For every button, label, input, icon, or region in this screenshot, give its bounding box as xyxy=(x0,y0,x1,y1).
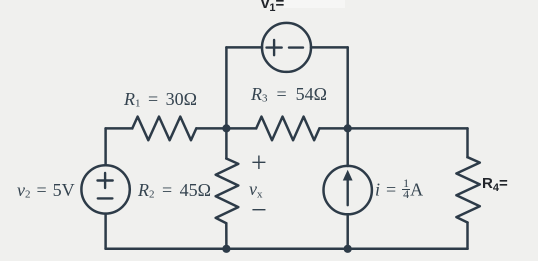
voltage source V1 minus terminal xyxy=(289,46,303,48)
resistor R3 (54 ohm, horizontal) xyxy=(256,117,319,141)
voltage source V1 (v1) circle xyxy=(262,23,311,72)
wire: R2 to bottom rail node D xyxy=(225,223,228,249)
label vx minus polarity xyxy=(251,195,267,227)
wire: node C to right rail top xyxy=(348,127,468,130)
wire: main horizontal rail left segment (node A to R1) xyxy=(106,127,133,130)
wire: node B to R3 xyxy=(226,127,256,130)
wire: top loop right vertical down to node C xyxy=(346,47,349,128)
value label R2 = 45 ohm xyxy=(138,180,211,201)
wire: node B down to R2 xyxy=(225,128,228,158)
wire: node B up to top loop xyxy=(225,47,228,128)
wire: source V1 to top loop right xyxy=(311,46,348,49)
value label R1 = 30 ohm xyxy=(124,89,197,110)
resistor R4 (vertical, right) xyxy=(456,157,479,222)
value label i = 1/4 A (current source I1) xyxy=(375,179,423,201)
label vx plus polarity xyxy=(251,148,267,180)
voltage source V1 plus terminal xyxy=(267,40,282,55)
value label R3 = 54 ohm xyxy=(251,84,327,105)
wire: R4 to bottom rail xyxy=(466,223,469,249)
wire: top loop left horizontal to source V1 xyxy=(226,46,262,49)
label vx (node voltage) xyxy=(249,179,263,200)
node E junction dot xyxy=(344,245,352,253)
current source I1 arrow xyxy=(343,170,353,205)
value label v2 = 5V (source V2) xyxy=(17,180,75,201)
voltage source V2 plus terminal xyxy=(98,173,113,188)
wire: V2 bottom to bottom rail xyxy=(104,214,107,249)
wire: node C down to current source I1 xyxy=(346,128,349,166)
node D junction dot xyxy=(222,245,230,253)
wire: R3 to node C xyxy=(319,127,347,130)
resistor R2 (45 ohm, vertical) xyxy=(216,159,239,224)
resistor R1 (30 ohm, horizontal) xyxy=(132,117,196,141)
wire: bottom rail xyxy=(106,248,468,251)
value label R4= xyxy=(482,175,508,192)
wire: I1 bottom to bottom rail node E xyxy=(346,214,349,249)
node B junction dot xyxy=(222,124,230,132)
voltage source V2 minus terminal xyxy=(98,197,113,199)
wire: R1 to node B xyxy=(196,127,226,130)
input box remnant (faint) top right xyxy=(283,0,345,8)
wire: right rail upper segment to R4 xyxy=(466,128,469,157)
wire: left rail top (node A down to source V2) xyxy=(104,128,107,165)
current source I1 (i = 1/4 A) circle xyxy=(324,166,372,214)
voltage source V2 (v2 = 5V) circle xyxy=(81,165,129,213)
node C junction dot xyxy=(344,124,352,132)
value label v1= (source V1) xyxy=(261,0,284,12)
